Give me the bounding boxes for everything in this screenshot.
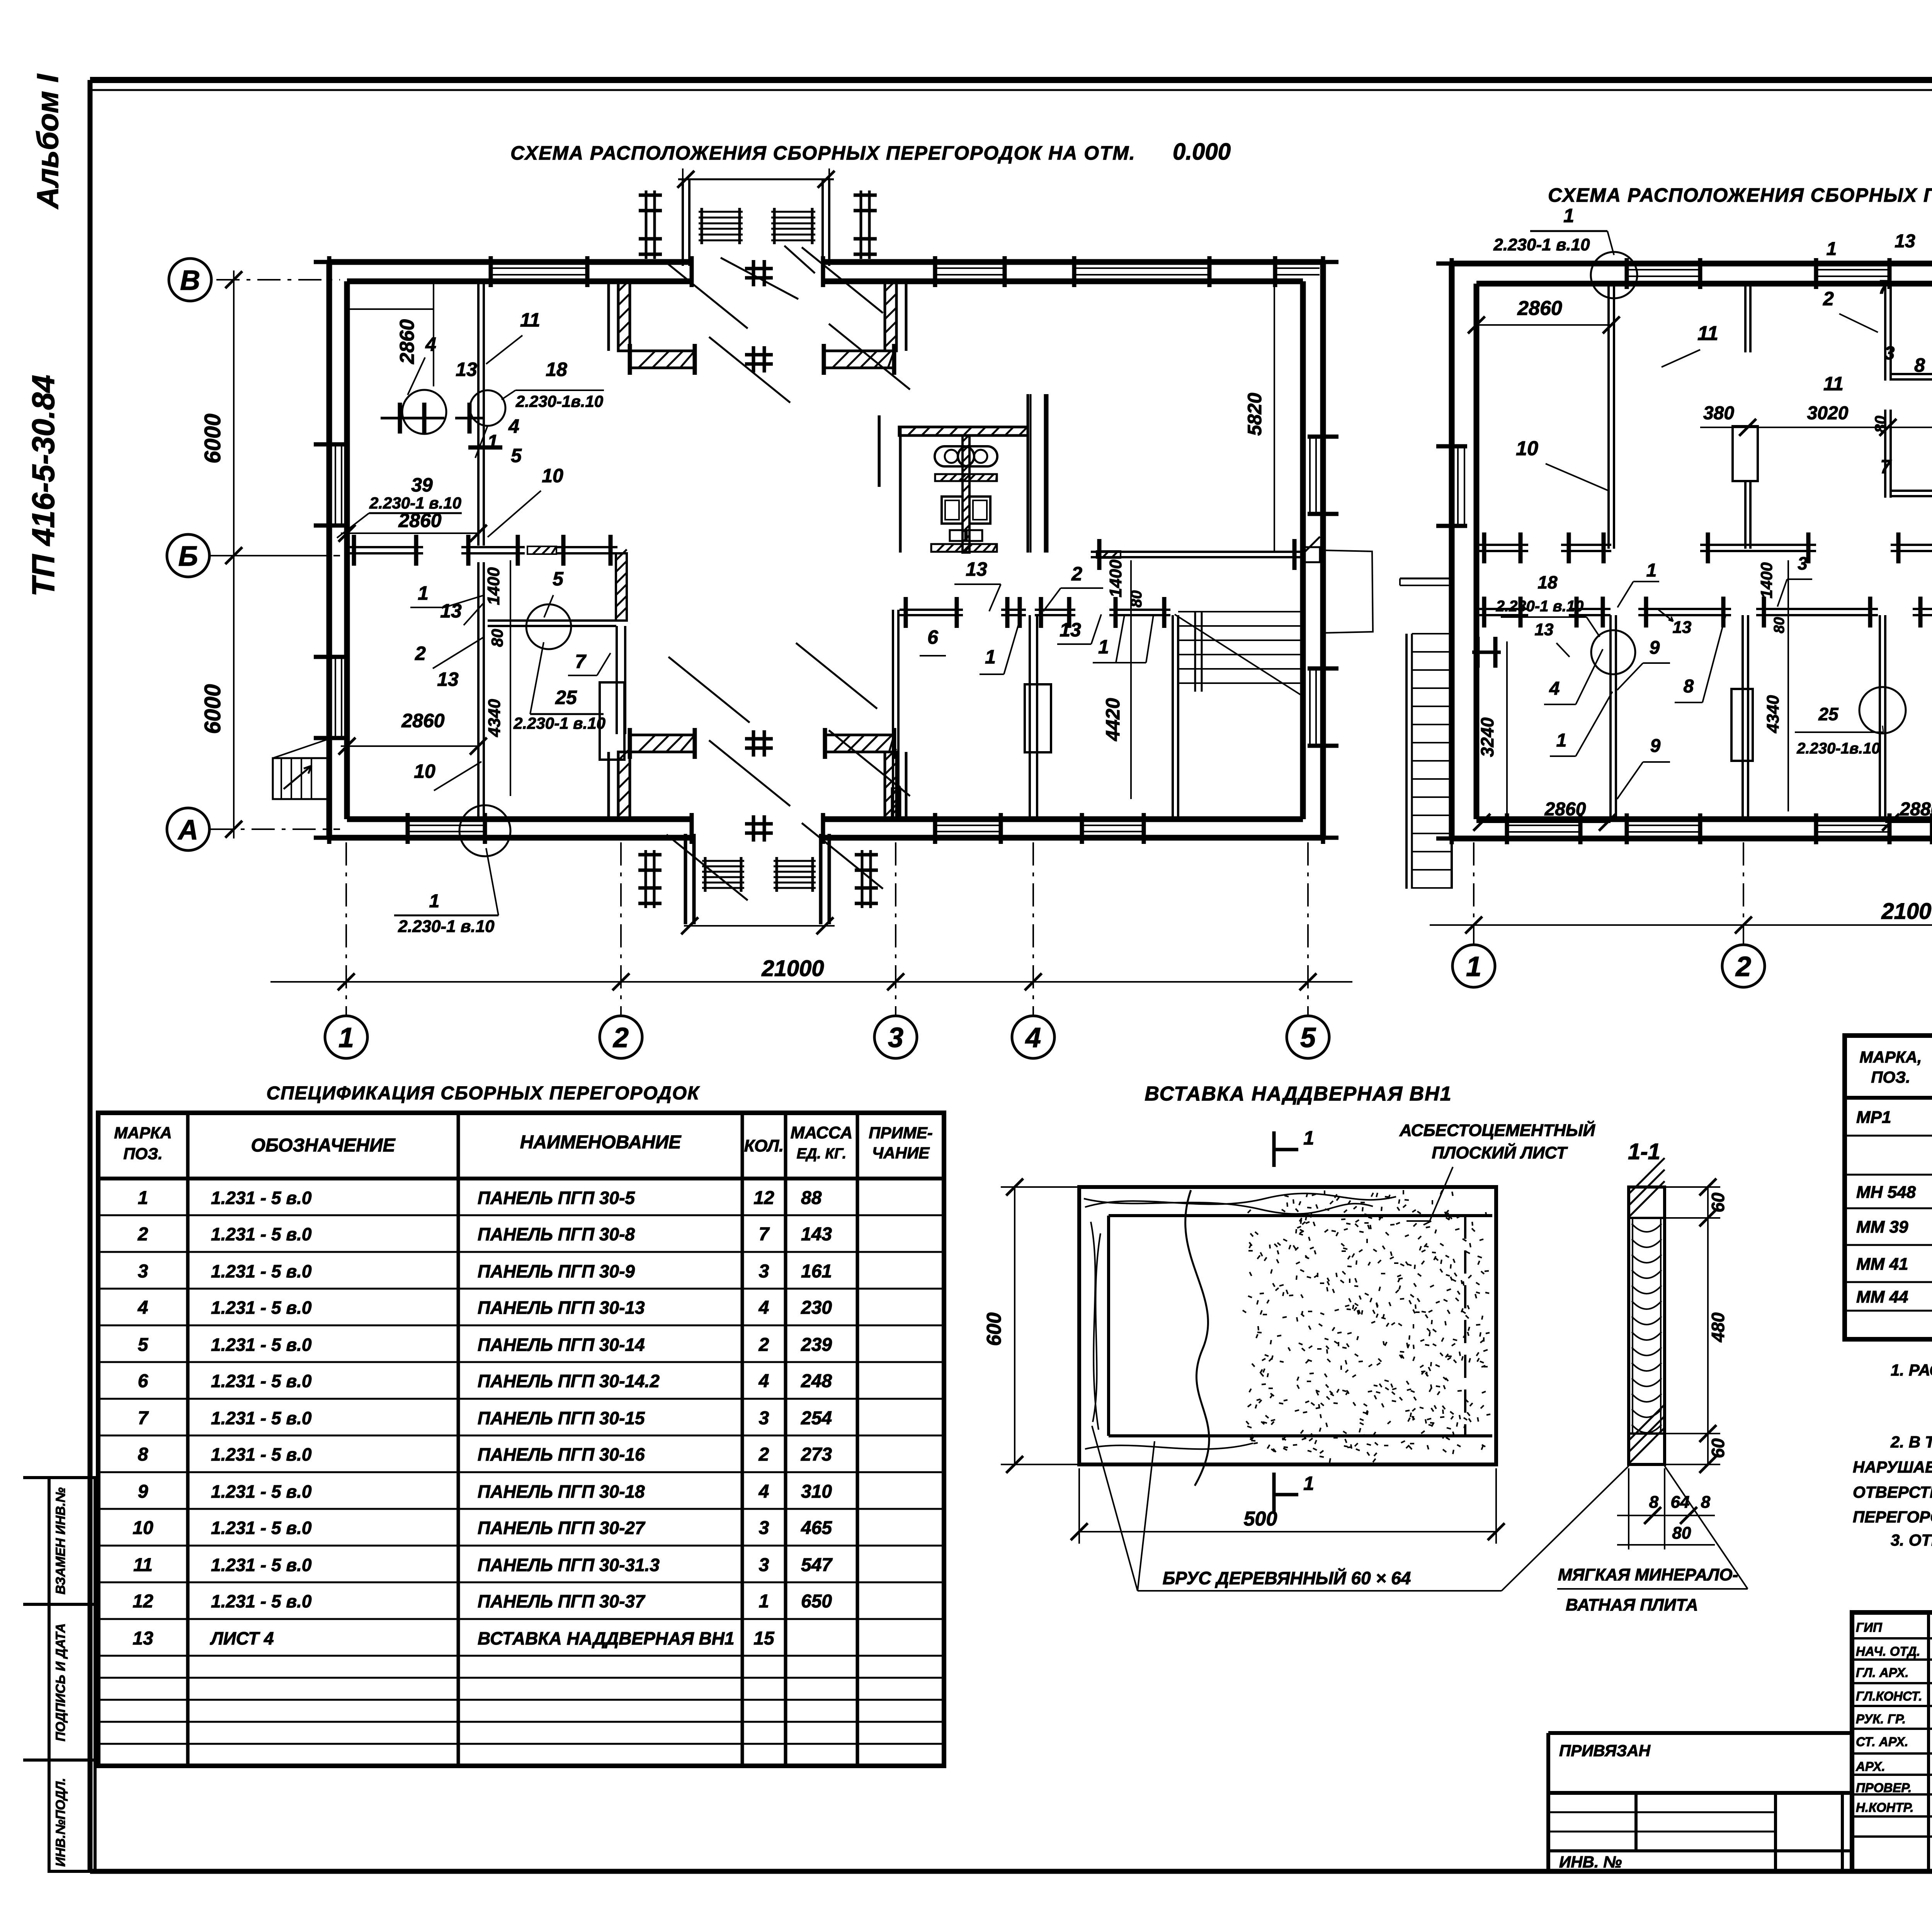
left plan bottom vestibule walls bbox=[684, 834, 687, 924]
svg-text:2.230-1 в.10: 2.230-1 в.10 bbox=[1493, 235, 1590, 254]
svg-text:1.231 - 5 в.0: 1.231 - 5 в.0 bbox=[211, 1444, 312, 1464]
svg-text:1400: 1400 bbox=[484, 567, 503, 605]
svg-text:25: 25 bbox=[555, 687, 577, 708]
svg-text:10: 10 bbox=[1516, 437, 1538, 460]
svg-text:ИНВ. №: ИНВ. № bbox=[1559, 1853, 1622, 1871]
VN1 frame outer bbox=[1079, 1187, 1496, 1464]
svg-text:1: 1 bbox=[1303, 1127, 1314, 1149]
svg-text:ОТВЕРСТИЯ ИЗ БРУСКОВ СООТВ: ОТВЕРСТИЯ ИЗ БРУСКОВ СООТВЕТСТВУЮЩЕГО СЕ… bbox=[1853, 1483, 1932, 1501]
svg-text:39: 39 bbox=[411, 474, 433, 496]
svg-text:2860: 2860 bbox=[396, 319, 418, 364]
toilet left wall bbox=[878, 415, 881, 487]
svg-text:СПЕЦИФИКАЦИЯ СБОРНЫХ ПЕРЕГОР: СПЕЦИФИКАЦИЯ СБОРНЫХ ПЕРЕГОРОДОК bbox=[266, 1083, 700, 1104]
hall hatched band top-left bbox=[630, 351, 695, 368]
svg-text:ПАНЕЛЬ ПГП 30-8: ПАНЕЛЬ ПГП 30-8 bbox=[478, 1224, 635, 1244]
corridor B south partitions east wing bbox=[900, 609, 963, 611]
right table grid bbox=[1845, 1036, 1932, 1339]
VN1 section dims 60/480/60 bbox=[1707, 1187, 1709, 1464]
svg-text:4: 4 bbox=[425, 333, 436, 355]
svg-text:2: 2 bbox=[1823, 288, 1834, 310]
VN1 dim 500 bbox=[1079, 1531, 1496, 1532]
VN1 dashed sheet edge bbox=[1222, 1214, 1465, 1217]
svg-text:1: 1 bbox=[1556, 730, 1567, 751]
svg-text:88: 88 bbox=[801, 1188, 822, 1208]
svg-text:10: 10 bbox=[133, 1518, 153, 1538]
svg-text:ПЕРЕГОРОДКИ.: ПЕРЕГОРОДКИ. bbox=[1853, 1508, 1932, 1526]
VN1 section mineral wool waves bbox=[1632, 1224, 1662, 1232]
svg-text:1: 1 bbox=[1098, 636, 1109, 658]
svg-text:7: 7 bbox=[138, 1408, 149, 1429]
svg-text:ИНВ.№ПОДЛ.: ИНВ.№ПОДЛ. bbox=[53, 1778, 68, 1867]
svg-text:13: 13 bbox=[1060, 619, 1081, 641]
hall hatched pier top-left bbox=[618, 283, 630, 351]
svg-text:2860: 2860 bbox=[1544, 799, 1586, 820]
left wall entry stair bbox=[273, 758, 328, 799]
svg-text:БРУС ДЕРЕВЯННЫЙ 60 × 64: БРУС ДЕРЕВЯННЫЙ 60 × 64 bbox=[1163, 1568, 1411, 1588]
passage gate posts top left bbox=[645, 190, 648, 259]
svg-text:7: 7 bbox=[575, 651, 587, 672]
svg-text:1.231 - 5 в.0: 1.231 - 5 в.0 bbox=[211, 1188, 312, 1208]
svg-text:1.231 - 5 в.0: 1.231 - 5 в.0 bbox=[211, 1224, 312, 1244]
svg-text:18: 18 bbox=[1537, 572, 1558, 592]
svg-text:480: 480 bbox=[1708, 1312, 1728, 1342]
svg-text:13: 13 bbox=[1673, 618, 1692, 637]
svg-text:9: 9 bbox=[1650, 638, 1660, 658]
svg-text:2860: 2860 bbox=[1517, 297, 1562, 320]
svg-text:ПРОВЕР.: ПРОВЕР. bbox=[1856, 1781, 1912, 1795]
svg-text:1: 1 bbox=[985, 646, 996, 668]
svg-text:МАРКА: МАРКА bbox=[114, 1124, 172, 1142]
svg-text:2: 2 bbox=[759, 1335, 769, 1355]
left plan top-left window dim ext bbox=[347, 308, 434, 310]
sheet border frame bbox=[90, 77, 1932, 83]
svg-text:1: 1 bbox=[429, 891, 440, 912]
svg-text:1.231 - 5 в.0: 1.231 - 5 в.0 bbox=[211, 1555, 312, 1575]
left plan top vestibule walls bbox=[682, 179, 684, 266]
svg-text:4340: 4340 bbox=[1764, 695, 1782, 733]
panel tie symbols bbox=[381, 417, 444, 420]
svg-text:8: 8 bbox=[138, 1444, 148, 1465]
svg-text:СХЕМА РАСПОЛОЖЕНИЯ СБОРНЫХ: СХЕМА РАСПОЛОЖЕНИЯ СБОРНЫХ ПЕРЕГОРОДОК Н… bbox=[510, 142, 1136, 164]
VN1 frame inner bbox=[1107, 1216, 1110, 1436]
svg-text:8: 8 bbox=[1649, 1493, 1659, 1512]
svg-text:ПЛОСКИЙ ЛИСТ: ПЛОСКИЙ ЛИСТ bbox=[1432, 1143, 1568, 1162]
partition x1244 lower bbox=[477, 562, 480, 819]
svg-text:ПАНЕЛЬ ПГП 30-27: ПАНЕЛЬ ПГП 30-27 bbox=[478, 1518, 646, 1538]
svg-text:1-1: 1-1 bbox=[1628, 1139, 1660, 1164]
hall hatched band bottom-left bbox=[630, 735, 695, 752]
svg-text:ВСТАВКА НАДДВЕРНАЯ ВН1: ВСТАВКА НАДДВЕРНАЯ ВН1 bbox=[1145, 1083, 1452, 1105]
svg-text:254: 254 bbox=[801, 1408, 832, 1429]
svg-text:3: 3 bbox=[888, 1022, 903, 1053]
svg-text:4: 4 bbox=[759, 1481, 769, 1502]
svg-text:А: А bbox=[177, 815, 198, 845]
svg-text:6000: 6000 bbox=[200, 413, 225, 463]
right plan corridor B south partition bbox=[1476, 608, 1528, 610]
VN1 stipple texture bbox=[1399, 1199, 1400, 1204]
right plan dimension line 21000 bbox=[1430, 924, 1932, 926]
svg-text:5: 5 bbox=[511, 445, 522, 466]
svg-text:ММ 44: ММ 44 bbox=[1856, 1287, 1908, 1306]
svg-text:3240: 3240 bbox=[1477, 717, 1497, 757]
metal grille MR1 bottom left bbox=[704, 857, 707, 892]
svg-text:1.231 - 5 в.0: 1.231 - 5 в.0 bbox=[211, 1371, 312, 1391]
passage gate posts top right bbox=[860, 190, 862, 259]
svg-text:1: 1 bbox=[1303, 1473, 1314, 1494]
svg-text:ПАНЕЛЬ ПГП 30-14.2: ПАНЕЛЬ ПГП 30-14.2 bbox=[478, 1371, 660, 1391]
right plan top detail circle bbox=[1591, 252, 1637, 298]
svg-text:1400: 1400 bbox=[1757, 562, 1776, 598]
left plan vertical dimension line 6000/6000 bbox=[233, 270, 235, 838]
svg-text:8: 8 bbox=[1684, 676, 1694, 697]
svg-text:2.230-1 в.10: 2.230-1 в.10 bbox=[513, 714, 605, 732]
closet rect east wing bbox=[1025, 684, 1051, 752]
svg-text:ГИП: ГИП bbox=[1856, 1620, 1883, 1634]
room partition horizontal y975 bbox=[1891, 373, 1932, 375]
passage gate posts bottom left bbox=[645, 850, 647, 908]
svg-text:КОЛ.: КОЛ. bbox=[744, 1136, 784, 1155]
room partition horizontal y1277 bbox=[1891, 490, 1932, 492]
VN1 dividing wavy line bbox=[1185, 1190, 1209, 1486]
svg-text:ОБОЗНАЧЕНИЕ: ОБОЗНАЧЕНИЕ bbox=[251, 1135, 396, 1156]
svg-text:НАИМЕНОВАНИЕ: НАИМЕНОВАНИЕ bbox=[520, 1132, 682, 1153]
svg-text:1.231 - 5 в.0: 1.231 - 5 в.0 bbox=[211, 1408, 312, 1428]
svg-text:13: 13 bbox=[1895, 231, 1915, 252]
svg-text:1.231 - 5 в.0: 1.231 - 5 в.0 bbox=[211, 1591, 312, 1611]
svg-text:5: 5 bbox=[138, 1335, 149, 1355]
svg-text:6: 6 bbox=[138, 1371, 148, 1391]
svg-text:0.000: 0.000 bbox=[1173, 139, 1231, 165]
svg-text:ПАНЕЛЬ ПГП 30-9: ПАНЕЛЬ ПГП 30-9 bbox=[478, 1261, 635, 1281]
stair room partition bbox=[1172, 615, 1174, 819]
detail circles west wing bbox=[402, 390, 446, 434]
svg-text:13: 13 bbox=[1535, 620, 1554, 639]
svg-text:2: 2 bbox=[759, 1444, 769, 1465]
left table grid bbox=[98, 1113, 944, 1766]
svg-text:1: 1 bbox=[418, 582, 429, 604]
VN1 section bar bbox=[1629, 1187, 1665, 1464]
detail circle room 5 bbox=[526, 604, 571, 649]
privyazan box bbox=[1548, 1731, 1852, 1735]
toilet block top hatched wall bbox=[899, 427, 1028, 435]
svg-text:248: 248 bbox=[801, 1371, 832, 1391]
right plan bottom wall bbox=[1452, 836, 1932, 842]
svg-text:В: В bbox=[180, 265, 200, 296]
toilet central hatched wall bbox=[963, 435, 969, 553]
corridor B partition east bbox=[1091, 551, 1303, 553]
svg-text:ЧАНИЕ: ЧАНИЕ bbox=[872, 1144, 930, 1162]
svg-text:3020: 3020 bbox=[1807, 403, 1849, 423]
svg-text:6000: 6000 bbox=[200, 684, 225, 734]
svg-text:2880: 2880 bbox=[1900, 799, 1932, 820]
svg-text:1.231 - 5 в.0: 1.231 - 5 в.0 bbox=[211, 1518, 312, 1538]
svg-text:ГЛ.КОНСТ.: ГЛ.КОНСТ. bbox=[1856, 1689, 1922, 1703]
metal grille MR1 bottom right bbox=[776, 857, 778, 892]
svg-text:143: 143 bbox=[801, 1224, 832, 1245]
svg-text:650: 650 bbox=[801, 1591, 832, 1612]
svg-text:13: 13 bbox=[456, 359, 477, 380]
svg-text:4: 4 bbox=[508, 415, 519, 437]
svg-text:239: 239 bbox=[801, 1335, 832, 1355]
hall hatched band bottom-right bbox=[825, 735, 894, 752]
svg-text:13: 13 bbox=[133, 1628, 153, 1649]
right plan detail circle SW bbox=[1591, 630, 1635, 674]
step line at left plan B junction bbox=[1321, 550, 1373, 633]
svg-text:3: 3 bbox=[1798, 553, 1808, 573]
svg-text:3: 3 bbox=[759, 1518, 769, 1538]
svg-text:1: 1 bbox=[1646, 560, 1657, 581]
svg-text:11: 11 bbox=[1823, 373, 1844, 395]
left plan dimension line 21000 bbox=[270, 981, 1352, 983]
svg-text:465: 465 bbox=[801, 1518, 832, 1538]
VN1 callout triangle to section bbox=[1502, 1466, 1629, 1591]
svg-text:ПРИМЕ-: ПРИМЕ- bbox=[869, 1124, 932, 1142]
svg-text:МАССА: МАССА bbox=[791, 1123, 852, 1142]
hall hatched pier bottom-left bbox=[618, 752, 630, 819]
svg-text:1.231 - 5 в.0: 1.231 - 5 в.0 bbox=[211, 1298, 312, 1318]
south closet west bbox=[1731, 689, 1753, 761]
left plan axis line A bbox=[211, 828, 340, 830]
svg-text:21000: 21000 bbox=[761, 956, 824, 981]
svg-text:МР1: МР1 bbox=[1856, 1108, 1891, 1127]
svg-text:АРХ.: АРХ. bbox=[1855, 1759, 1885, 1774]
svg-text:25: 25 bbox=[1818, 704, 1839, 724]
svg-text:ММ 41: ММ 41 bbox=[1856, 1255, 1908, 1274]
svg-text:11: 11 bbox=[1697, 322, 1718, 345]
svg-text:18: 18 bbox=[546, 359, 567, 380]
svg-text:80: 80 bbox=[1771, 617, 1787, 633]
left plan right wall (axis 5) bbox=[1320, 262, 1326, 838]
metal grille MR1 top left bbox=[701, 208, 703, 244]
svg-text:ПОЗ.: ПОЗ. bbox=[1871, 1068, 1910, 1086]
left plan left wall (axis 1) bbox=[327, 262, 332, 838]
svg-text:2: 2 bbox=[138, 1224, 148, 1245]
svg-text:1: 1 bbox=[138, 1188, 148, 1208]
svg-text:1.231 - 5 в.0: 1.231 - 5 в.0 bbox=[211, 1481, 312, 1502]
svg-text:3: 3 bbox=[759, 1555, 769, 1575]
svg-text:Н.КОНТР.: Н.КОНТР. bbox=[1856, 1800, 1914, 1815]
svg-text:80: 80 bbox=[488, 629, 506, 647]
svg-text:СТ. АРХ.: СТ. АРХ. bbox=[1856, 1735, 1908, 1749]
closet near hall pier bbox=[600, 682, 624, 760]
VN1 section sheet lines bbox=[1632, 1218, 1633, 1434]
svg-text:ПАНЕЛЬ ПГП 30-5: ПАНЕЛЬ ПГП 30-5 bbox=[478, 1188, 635, 1208]
partition x4886 bbox=[1884, 284, 1886, 381]
privyazan sub table bbox=[1548, 1791, 1852, 1795]
svg-text:2.230-1 в.10: 2.230-1 в.10 bbox=[369, 494, 461, 512]
partition room 5-7 horizontal bbox=[488, 619, 616, 622]
hall hatched pier top-right bbox=[885, 283, 896, 351]
svg-text:ПАНЕЛЬ ПГП 30-31.3: ПАНЕЛЬ ПГП 30-31.3 bbox=[478, 1555, 660, 1575]
svg-text:ПОЗ.: ПОЗ. bbox=[123, 1145, 163, 1163]
svg-text:2: 2 bbox=[1735, 951, 1751, 982]
svg-text:МАРКА,: МАРКА, bbox=[1859, 1048, 1922, 1066]
svg-text:11: 11 bbox=[133, 1555, 153, 1575]
svg-text:64: 64 bbox=[1671, 1493, 1690, 1512]
svg-text:ЕД. КГ.: ЕД. КГ. bbox=[797, 1146, 847, 1162]
south partitions verticals bbox=[1609, 615, 1612, 819]
svg-text:161: 161 bbox=[801, 1261, 832, 1282]
left plan axis circle A bbox=[167, 808, 209, 850]
svg-text:Б: Б bbox=[179, 541, 198, 572]
svg-text:ЛИСТ 4: ЛИСТ 4 bbox=[210, 1628, 274, 1648]
hall hatched pier bottom-right bbox=[885, 752, 896, 819]
svg-text:7: 7 bbox=[1880, 456, 1892, 478]
title block signature table bbox=[1852, 1612, 1932, 1871]
svg-text:МН 548: МН 548 bbox=[1856, 1183, 1916, 1202]
svg-text:4: 4 bbox=[759, 1298, 769, 1318]
VN1 dim 600 bbox=[1014, 1187, 1015, 1464]
passage gate posts bottom right bbox=[861, 850, 864, 908]
svg-text:4420: 4420 bbox=[1102, 698, 1124, 741]
svg-text:2.230-1 в.10: 2.230-1 в.10 bbox=[398, 917, 495, 936]
toilet mid hatched partition bbox=[935, 474, 997, 481]
margin stamp box inv n podl bbox=[49, 1760, 95, 1871]
svg-text:ПАНЕЛЬ ПГП 30-37: ПАНЕЛЬ ПГП 30-37 bbox=[478, 1591, 646, 1611]
svg-text:2860: 2860 bbox=[398, 510, 441, 531]
partition 11 x4170 bbox=[1607, 284, 1610, 549]
vestibule dimension line bbox=[684, 925, 835, 927]
svg-text:2.230-1в.10: 2.230-1в.10 bbox=[1796, 740, 1880, 757]
svg-text:3: 3 bbox=[1884, 343, 1895, 364]
svg-text:5820: 5820 bbox=[1244, 393, 1265, 435]
VN1 section cut mark bottom bbox=[1272, 1473, 1276, 1512]
svg-text:ПОДПИСЬ И ДАТА: ПОДПИСЬ И ДАТА bbox=[53, 1623, 68, 1742]
svg-text:2860: 2860 bbox=[401, 710, 444, 731]
svg-text:5: 5 bbox=[1300, 1022, 1316, 1053]
svg-text:21000: 21000 bbox=[1881, 899, 1932, 924]
svg-text:4: 4 bbox=[1549, 679, 1560, 699]
svg-text:13: 13 bbox=[440, 600, 462, 622]
partition near axis2 hatched bbox=[616, 553, 627, 621]
svg-text:4: 4 bbox=[138, 1298, 148, 1318]
svg-text:60: 60 bbox=[1708, 1438, 1728, 1458]
right plan corridor B north partition bbox=[1476, 544, 1528, 546]
toilet bottom hatched wall bbox=[931, 544, 997, 552]
svg-text:80: 80 bbox=[1672, 1524, 1691, 1543]
svg-text:4: 4 bbox=[759, 1371, 769, 1391]
VN1 section cut mark top bbox=[1272, 1131, 1276, 1167]
svg-text:273: 273 bbox=[801, 1444, 832, 1465]
svg-text:60: 60 bbox=[1708, 1192, 1728, 1213]
svg-text:600: 600 bbox=[983, 1313, 1005, 1346]
partition x4523 with cabinet bbox=[1744, 284, 1747, 352]
WC small boxes bbox=[950, 530, 965, 541]
svg-text:12: 12 bbox=[133, 1591, 153, 1612]
svg-text:8: 8 bbox=[1914, 354, 1925, 376]
svg-text:310: 310 bbox=[801, 1481, 832, 1502]
svg-text:ММ 39: ММ 39 bbox=[1856, 1218, 1908, 1236]
svg-text:ВЗАМЕН ИНВ.№: ВЗАМЕН ИНВ.№ bbox=[53, 1487, 68, 1594]
hatched pier on left plan right wall at B bbox=[1303, 547, 1320, 562]
svg-text:1400: 1400 bbox=[1106, 560, 1125, 597]
tie bars south rooms bbox=[1472, 651, 1501, 654]
left plan top wall (axis V) bbox=[329, 259, 692, 265]
svg-text:1.231 - 5 в.0: 1.231 - 5 в.0 bbox=[211, 1335, 312, 1355]
svg-text:6: 6 bbox=[927, 626, 939, 648]
svg-text:7: 7 bbox=[759, 1224, 770, 1245]
svg-text:3: 3 bbox=[759, 1408, 769, 1429]
svg-text:9: 9 bbox=[1650, 736, 1661, 756]
svg-text:1: 1 bbox=[759, 1591, 769, 1612]
svg-text:3: 3 bbox=[759, 1261, 769, 1282]
svg-text:2: 2 bbox=[612, 1022, 629, 1053]
hall hatched band top-right bbox=[824, 351, 894, 368]
svg-text:547: 547 bbox=[801, 1555, 833, 1575]
left plan axis line V bbox=[216, 279, 340, 281]
partition axis3 vertical bbox=[892, 610, 894, 819]
VN1 wood grain top band bbox=[1085, 1194, 1396, 1207]
toilet vertical dim bbox=[879, 415, 881, 487]
axis B tie to wall bbox=[234, 555, 329, 556]
hall passage diagonal marks bbox=[721, 258, 798, 299]
toilet right walls bbox=[1027, 394, 1029, 553]
left plan axis line B bbox=[211, 555, 340, 556]
svg-text:ПАНЕЛЬ ПГП 30-13: ПАНЕЛЬ ПГП 30-13 bbox=[478, 1298, 645, 1318]
partition axis4 vertical bbox=[1029, 615, 1031, 819]
left plan axis circle B bbox=[167, 534, 209, 577]
external stair top landing bbox=[1400, 578, 1452, 580]
svg-text:11: 11 bbox=[520, 309, 540, 331]
svg-text:ПАНЕЛЬ ПГП 30-16: ПАНЕЛЬ ПГП 30-16 bbox=[478, 1444, 645, 1464]
corridor B partitions west bbox=[347, 546, 423, 548]
svg-text:АСБЕСТОЦЕМЕНТНЫЙ: АСБЕСТОЦЕМЕНТНЫЙ bbox=[1399, 1120, 1595, 1140]
svg-text:1: 1 bbox=[1563, 205, 1574, 226]
svg-text:1.231 - 5 в.0: 1.231 - 5 в.0 bbox=[211, 1261, 312, 1281]
svg-text:12: 12 bbox=[753, 1188, 774, 1208]
svg-text:10: 10 bbox=[414, 760, 435, 782]
svg-text:3: 3 bbox=[138, 1261, 148, 1282]
svg-text:НАРУШАЕТ ЕЕ ДЕРЕВЯННУЮ ОБВЯ: НАРУШАЕТ ЕЕ ДЕРЕВЯННУЮ ОБВЯЗКУ, ВЫПОЛНИТ… bbox=[1853, 1458, 1932, 1476]
VN1 section dims 8/64/8 and 80 bbox=[1617, 1515, 1715, 1516]
svg-text:ПАНЕЛЬ ПГП 30-14: ПАНЕЛЬ ПГП 30-14 bbox=[478, 1335, 645, 1355]
svg-text:5: 5 bbox=[553, 568, 564, 590]
svg-text:СХЕМА РАСПОЛОЖЕНИЯ СБОРНЫХ: СХЕМА РАСПОЛОЖЕНИЯ СБОРНЫХ ПЕРЕГОРОДОК Н… bbox=[1548, 184, 1932, 206]
svg-text:ГЛ. АРХ.: ГЛ. АРХ. bbox=[1856, 1665, 1909, 1680]
svg-text:4340: 4340 bbox=[485, 699, 504, 737]
svg-text:НАЧ. ОТД.: НАЧ. ОТД. bbox=[1856, 1644, 1920, 1658]
svg-text:7: 7 bbox=[1878, 276, 1890, 298]
svg-text:15: 15 bbox=[753, 1628, 775, 1649]
svg-text:РУК. ГР.: РУК. ГР. bbox=[1856, 1712, 1906, 1726]
svg-text:2.230-1 в.10: 2.230-1 в.10 bbox=[1496, 598, 1584, 615]
svg-text:2: 2 bbox=[415, 643, 426, 664]
svg-text:Альбом I: Альбом I bbox=[31, 74, 65, 209]
partition below hall pier west bbox=[616, 626, 618, 734]
svg-text:ПАНЕЛЬ ПГП 30-18: ПАНЕЛЬ ПГП 30-18 bbox=[478, 1481, 645, 1502]
washbasins bbox=[935, 446, 974, 466]
left plan axis circle V bbox=[169, 259, 211, 301]
VN1 wood grain bottom band bbox=[1085, 1443, 1253, 1449]
svg-text:2.230-1в.10: 2.230-1в.10 bbox=[515, 392, 603, 410]
stair treads left plan bbox=[1178, 611, 1303, 612]
VN1 wood grain left band bbox=[1091, 1222, 1099, 1430]
svg-text:230: 230 bbox=[801, 1298, 832, 1318]
left plan bottom axis circles 1-5 bbox=[325, 1016, 367, 1058]
svg-text:2. В ТОМ СЛУЧАЕ, ЕСЛИ ОТ: 2. В ТОМ СЛУЧАЕ, ЕСЛИ ОТВЕРСТИЕ В ГИПСОП… bbox=[1890, 1432, 1932, 1451]
svg-text:1: 1 bbox=[1466, 951, 1481, 982]
svg-text:МЯГКАЯ МИНЕРАЛО-: МЯГКАЯ МИНЕРАЛО- bbox=[1558, 1565, 1738, 1584]
svg-text:1: 1 bbox=[1827, 239, 1837, 259]
right plan S detail circle bbox=[1859, 687, 1906, 733]
partition axis2 room divider x1244 bbox=[477, 281, 480, 546]
margin stamp box podpis i data bbox=[49, 1604, 95, 1760]
svg-text:13: 13 bbox=[966, 558, 987, 580]
svg-text:ВСТАВКА НАДДВЕРНАЯ ВН1: ВСТАВКА НАДДВЕРНАЯ ВН1 bbox=[478, 1628, 735, 1648]
svg-text:500: 500 bbox=[1244, 1508, 1277, 1530]
svg-text:3. ОТВЕРСТИЯ В ПЕРЕГОРОДК: 3. ОТВЕРСТИЯ В ПЕРЕГОРОДКАХ СМ. НА ЛИСТЕ… bbox=[1891, 1531, 1932, 1549]
right plan top wall bbox=[1452, 261, 1932, 267]
